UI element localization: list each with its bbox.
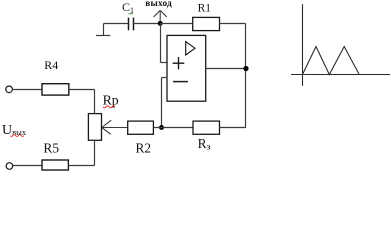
resistor R2 <box>128 121 154 134</box>
svg-text:Rз: Rз <box>198 136 211 152</box>
op-amp gain triangle <box>186 42 195 55</box>
resistor R1 <box>193 17 220 30</box>
input terminal stub (open end bar) <box>96 24 110 36</box>
wire stub to C1 <box>104 23 129 25</box>
svg-text:Rp: Rp <box>103 93 119 108</box>
resistor R3 <box>193 121 220 134</box>
node A junction dot (output node) <box>158 21 163 26</box>
wire R3 to right rail <box>220 127 247 129</box>
op-amp output wire <box>206 68 246 70</box>
wire R5 to pot bottom <box>68 140 94 165</box>
wire R2 to node B to R3 <box>153 127 193 129</box>
output junction dot <box>243 66 248 71</box>
svg-text:Uвых: Uвых <box>2 123 27 138</box>
wire R4 to pot top <box>69 90 95 114</box>
svg-text:R5: R5 <box>43 141 59 156</box>
output arrow <box>154 10 167 21</box>
top terminal circle <box>6 86 13 93</box>
red squiggle under U vykh <box>10 135 24 137</box>
svg-text:R2: R2 <box>136 140 152 155</box>
right rail wire <box>245 24 247 128</box>
capacitor C1 <box>129 18 134 31</box>
wire terminal to R5 <box>13 165 42 167</box>
op-amp U1 box <box>167 35 206 101</box>
wire R1 to right rail <box>220 23 246 25</box>
svg-text:C1: C1 <box>122 0 134 15</box>
node B junction dot <box>159 125 164 130</box>
graph vertical axis <box>302 4 304 86</box>
graph horizontal axis <box>291 74 390 76</box>
resistor R5 <box>42 160 68 170</box>
red squiggle under Rp <box>103 106 115 108</box>
op-amp plus input symbol <box>173 57 185 69</box>
wire terminal to R4 <box>12 89 42 91</box>
svg-text:выход: выход <box>145 0 172 9</box>
op-amp minus input symbol <box>173 81 188 83</box>
wire node A down to + input <box>161 24 168 63</box>
wire minus input to node B <box>162 78 168 128</box>
green mark under C1 subscript <box>129 13 134 14</box>
svg-text:R1: R1 <box>198 2 212 14</box>
resistor R4 <box>42 84 69 95</box>
potentiometer wiper arrow <box>102 120 111 134</box>
wire node A to R1 <box>160 23 193 25</box>
wire C1 to node A <box>134 23 161 25</box>
potentiometer Rp body <box>88 114 101 141</box>
bottom terminal circle <box>6 163 13 170</box>
wire wiper to R2 <box>102 127 128 129</box>
svg-text:R4: R4 <box>44 58 58 72</box>
triangle waveform <box>303 47 360 75</box>
